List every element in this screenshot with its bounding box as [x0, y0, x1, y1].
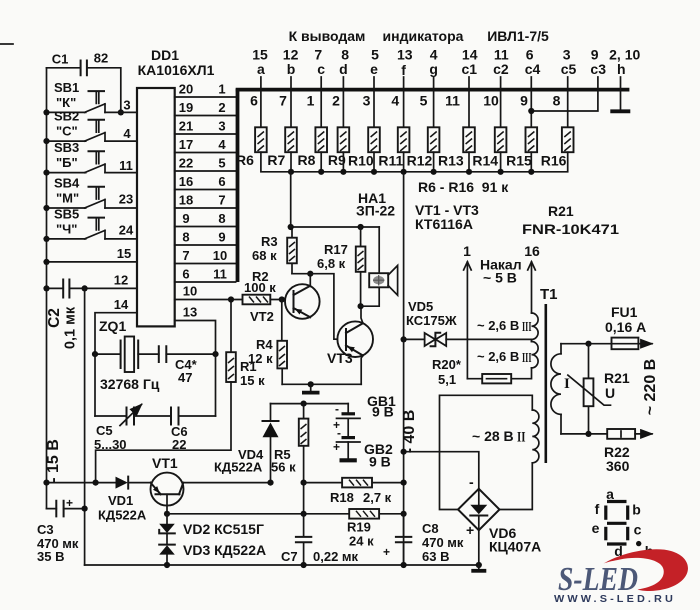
svg-text:3: 3: [123, 98, 130, 113]
transformer T1 core: [544, 304, 547, 463]
wire: VT3 collector to speaker node: [361, 306, 363, 323]
thick vertical bus at table right: [236, 89, 240, 283]
svg-text:+: +: [383, 545, 390, 559]
capacitor C4* 47: [159, 346, 216, 385]
resistor R4 12 к: [248, 300, 287, 385]
svg-text:WWW.S-LED.RU: WWW.S-LED.RU: [554, 593, 676, 605]
svg-text:U: U: [605, 385, 615, 401]
svg-text:21: 21: [179, 119, 193, 134]
node: VT2 base / R4: [279, 296, 285, 302]
svg-text:360: 360: [606, 458, 630, 474]
wire: rail to R18: [304, 482, 404, 484]
svg-text:"Б": "Б": [56, 155, 78, 170]
svg-text:10: 10: [213, 248, 227, 263]
svg-text:КЦ407А: КЦ407А: [489, 539, 541, 555]
svg-text:+: +: [66, 496, 73, 510]
svg-text:18: 18: [179, 193, 193, 208]
svg-text:23: 23: [119, 192, 133, 207]
svg-text:12 к: 12 к: [248, 351, 273, 366]
svg-text:VD2 КС515Г: VD2 КС515Г: [183, 521, 264, 537]
svg-text:35 В: 35 В: [37, 549, 64, 564]
capacitor C3 470 мк 35 В: [37, 496, 85, 564]
svg-text:VD1: VD1: [108, 493, 133, 508]
node: pin15 on bus: [43, 259, 49, 265]
svg-text:+: +: [466, 522, 474, 538]
svg-text:R8: R8: [298, 152, 316, 168]
pushbutton SB4 "М": [47, 176, 138, 209]
svg-text:FU1: FU1: [611, 304, 638, 320]
wire: pin 13 row to crystal right node: [175, 321, 216, 355]
svg-text:h: h: [617, 61, 626, 77]
svg-text:8: 8: [182, 230, 189, 245]
svg-text:16: 16: [524, 243, 540, 259]
resistor R17 6,8 к: [317, 227, 365, 306]
svg-text:c5: c5: [561, 61, 577, 77]
svg-text:-: -: [335, 402, 339, 416]
svg-text:13: 13: [397, 47, 413, 63]
node: R17/speaker top: [358, 224, 364, 230]
svg-text:56 к: 56 к: [271, 460, 296, 475]
svg-text:68 к: 68 к: [252, 248, 277, 263]
resistor R3 68 к: [252, 227, 297, 274]
node: SB1 on bus: [43, 109, 49, 115]
svg-text:R11: R11: [378, 153, 403, 169]
node: pin12 on bus: [43, 285, 49, 291]
wire: VT2 collector up to node: [309, 274, 311, 286]
pushbutton SB1 "К": [47, 80, 138, 113]
filament arrow 16: [531, 262, 533, 313]
chip-side wire numbers below bus: [250, 93, 561, 109]
svg-text:32768 Гц: 32768 Гц: [100, 376, 160, 392]
node: C7 top: [301, 511, 307, 517]
wire: pin 14 to crystal left node: [95, 313, 137, 354]
display segment letters row: [257, 61, 626, 78]
ground symbol (VT2/VT3 emitters): [310, 384, 312, 391]
resistor R8: [315, 127, 327, 152]
resistor R5 56 к: [271, 404, 308, 514]
pushbutton SB2 "С": [47, 109, 138, 142]
winding II ~28 В: [472, 410, 539, 463]
svg-text:0,22 мк: 0,22 мк: [313, 549, 359, 564]
capacitor C6 22: [171, 408, 216, 453]
wire: resistor common bottom line: [261, 152, 568, 172]
wire: pin 15 to bus: [47, 261, 138, 263]
svg-text:17: 17: [179, 137, 193, 152]
svg-text:16: 16: [179, 174, 193, 189]
svg-text:SB5: SB5: [54, 206, 79, 221]
node: R5 top: [301, 401, 307, 407]
node: SB2 on bus: [43, 138, 49, 144]
svg-text:b: b: [287, 61, 296, 77]
node: SB5 on bus: [43, 236, 49, 242]
svg-text:2: 2: [218, 100, 225, 115]
transistor VT3: [327, 321, 373, 366]
crystal ZQ1 32768 Гц: [95, 318, 160, 392]
node: R22/R21 bottom: [585, 431, 591, 437]
capacitor C7 0,22 мк: [281, 514, 359, 565]
svg-text:3: 3: [363, 93, 371, 109]
svg-text:e: e: [370, 61, 378, 77]
S-LED logo: [554, 549, 688, 605]
svg-text:Т1: Т1: [540, 286, 558, 303]
svg-text:0,16 А: 0,16 А: [605, 319, 646, 335]
node: R1 loop on rail: [93, 480, 99, 486]
svg-text:R13: R13: [438, 153, 464, 169]
wire: rail from pin12 wire down to bottom bus: [84, 288, 86, 565]
wire: HA1 top node row: [291, 226, 380, 228]
svg-text:С1: С1: [52, 52, 69, 67]
capacitor C1: [47, 51, 121, 113]
node: R19 on -40V bus: [401, 511, 407, 517]
resistor R19 24 к: [347, 509, 379, 549]
node: c3/c4 tie: [528, 108, 534, 114]
node: -40V rail bridge tap: [401, 449, 407, 455]
resistor R13: [463, 127, 475, 152]
ground (bottom bus): [478, 565, 480, 570]
svg-text:7: 7: [279, 93, 287, 109]
resistor R10: [368, 127, 380, 152]
svg-text:КС175Ж: КС175Ж: [406, 313, 457, 328]
svg-text:КД522А: КД522А: [98, 508, 147, 523]
svg-text:КД522А: КД522А: [214, 460, 263, 475]
svg-text:R17: R17: [324, 242, 348, 257]
resistor R6: [255, 127, 267, 152]
column wires bus to resistors: [261, 91, 568, 127]
svg-text:11: 11: [445, 93, 460, 109]
pin table left column numbers: [179, 82, 193, 282]
svg-text:II: II: [517, 430, 526, 446]
svg-text:R18: R18: [330, 490, 354, 505]
svg-text:b: b: [632, 502, 641, 518]
node: C3 on x84.6 rail: [82, 506, 88, 512]
svg-text:9: 9: [520, 93, 528, 109]
pin table right column numbers: [213, 82, 227, 282]
svg-text:R19: R19: [347, 520, 371, 535]
svg-text:R12: R12: [407, 153, 433, 169]
svg-text:КА1016ХЛ1: КА1016ХЛ1: [138, 62, 215, 78]
node: R1/R2 tap on pin10 wire: [228, 296, 234, 302]
svg-text:R4: R4: [256, 337, 273, 352]
varistor R21 U: [568, 344, 630, 434]
wire: h column with end bar: [620, 77, 622, 110]
svg-text:7: 7: [218, 193, 225, 208]
svg-text:63 В: 63 В: [422, 549, 449, 564]
svg-text:VD5: VD5: [408, 299, 433, 314]
node: crystal left: [92, 351, 98, 357]
svg-text:~ 220 В: ~ 220 В: [642, 359, 659, 415]
svg-text:R21: R21: [548, 203, 574, 219]
svg-text:III: III: [522, 320, 532, 335]
svg-text:VT1: VT1: [152, 455, 178, 471]
pin table wires rows (chip to display bus): [175, 97, 236, 282]
svg-text:С8: С8: [422, 521, 439, 536]
svg-text:VT3: VT3: [327, 350, 353, 366]
node: R17 bottom / VT3 collector: [358, 303, 364, 309]
svg-text:ЗП-22: ЗП-22: [356, 203, 395, 219]
diode VD1 КД522А: [98, 477, 147, 523]
svg-text:1: 1: [218, 82, 225, 97]
svg-text:24 к: 24 к: [349, 534, 374, 549]
svg-text:~ 2,6 В: ~ 2,6 В: [477, 318, 519, 333]
resistor R12: [428, 127, 440, 152]
svg-text:DD1: DD1: [151, 47, 179, 63]
winding I primary: [551, 344, 570, 434]
svg-text:5: 5: [218, 156, 225, 171]
svg-text:47: 47: [178, 370, 192, 385]
wire: primary top to FU1: [561, 343, 612, 345]
resistor R11: [398, 127, 410, 152]
resistor R20* 5,1: [432, 357, 532, 387]
svg-text:- 40 В: - 40 В: [401, 410, 418, 454]
trimmer capacitor C5 5...30: [94, 405, 171, 453]
7-segment indicator sketch: [592, 486, 654, 559]
wire: left keyboard bus: [46, 68, 48, 509]
svg-text:R16: R16: [541, 153, 567, 169]
resistor R15: [526, 127, 538, 152]
wire: R11/f column down (-40V rail upper part): [403, 172, 405, 340]
svg-text:f: f: [401, 62, 406, 78]
svg-text:К выводам: К выводам: [289, 28, 366, 44]
svg-text:24: 24: [119, 223, 134, 238]
node: VD4 on rail: [267, 480, 273, 486]
svg-text:8: 8: [553, 93, 561, 109]
svg-text:a: a: [606, 486, 614, 502]
svg-text:c1: c1: [462, 61, 478, 77]
svg-text:8: 8: [218, 211, 225, 226]
resistor bottom leads: [291, 152, 531, 172]
resistor R9: [338, 127, 350, 152]
svg-text:470 мк: 470 мк: [422, 535, 464, 550]
svg-text:-: -: [469, 474, 474, 490]
svg-text:С2: С2: [46, 308, 63, 328]
svg-text:15 к: 15 к: [240, 373, 265, 388]
svg-text:"Ч": "Ч": [56, 221, 77, 236]
node: R3 / VT2 collector / VT3 base coupling: [307, 271, 313, 277]
label: К выводам индикатора ИВЛ1-7/5: [289, 28, 549, 44]
svg-text:R21: R21: [604, 370, 630, 386]
battery GB1 9 В: [333, 393, 396, 432]
svg-text:7: 7: [182, 248, 189, 263]
svg-text:I: I: [564, 376, 570, 392]
svg-text:d: d: [339, 61, 348, 77]
wire: emitter ground bus: [282, 383, 361, 385]
speaker HA1 ЗП-22: [356, 190, 398, 306]
svg-text:6: 6: [182, 267, 189, 282]
battery GB2 9 В: [333, 418, 393, 469]
node: rail on -40V bus: [401, 480, 407, 486]
svg-text:SB1: SB1: [54, 80, 79, 95]
bridge rectifier VD6 КЦ407А: [458, 474, 541, 555]
wire: oscillator loop verticals: [95, 354, 216, 416]
svg-text:SB4: SB4: [54, 176, 80, 191]
fuse FU1 0,16 А: [605, 304, 652, 349]
transistor VT1: [151, 455, 271, 514]
node: rail on left bus: [43, 480, 49, 486]
svg-text:4: 4: [123, 126, 131, 141]
node: VT2 emitter on ground bus: [308, 381, 314, 387]
node: R5 on rail: [301, 480, 307, 486]
diode VD3 КД522А: [159, 533, 266, 565]
node: R7 column to HA1 row: [288, 224, 294, 230]
svg-text:3: 3: [218, 119, 225, 134]
svg-text:-: -: [337, 426, 341, 440]
svg-text:6,8 к: 6,8 к: [317, 256, 346, 271]
node: VD3 bottom: [164, 562, 170, 568]
svg-text:R14: R14: [472, 153, 498, 169]
svg-text:g: g: [429, 61, 438, 77]
resistor R22 360: [604, 429, 652, 474]
winding III-b ~2,6 В: [477, 342, 538, 368]
svg-text:13: 13: [183, 305, 197, 320]
svg-text:6: 6: [218, 174, 225, 189]
wire: VT3 emitter to ground bus: [361, 356, 363, 385]
capacitor C2 (in pin 12 wire): [46, 280, 137, 350]
svg-text:9 В: 9 В: [372, 404, 394, 420]
wire: 28V winding loop box: [440, 395, 533, 509]
svg-text:100 к: 100 к: [244, 280, 276, 295]
pushbutton SB3 "Б": [47, 140, 138, 173]
svg-text:2,7 к: 2,7 к: [363, 490, 392, 505]
resistor R14: [495, 127, 507, 152]
svg-text:ZQ1: ZQ1: [99, 318, 126, 334]
svg-text:9 В: 9 В: [369, 454, 391, 470]
svg-text:a: a: [257, 61, 265, 77]
svg-text:VT2: VT2: [250, 309, 274, 324]
wire: R19 row: [167, 513, 404, 515]
svg-text:9: 9: [218, 230, 225, 245]
node: C7 bottom: [301, 562, 307, 568]
wire: pin 10 row: [175, 299, 243, 301]
node: SB3 on bus: [43, 170, 49, 176]
svg-text:c: c: [317, 61, 325, 77]
svg-text:R15: R15: [506, 153, 532, 169]
svg-text:4: 4: [391, 93, 399, 109]
svg-text:+: +: [333, 440, 340, 454]
wire: -15V / VD1 / VT1 rail: [47, 482, 151, 484]
svg-text:SB3: SB3: [54, 140, 79, 155]
node: SB4 on bus: [43, 205, 49, 211]
svg-text:~ 2,6 В: ~ 2,6 В: [477, 349, 519, 364]
svg-text:10: 10: [183, 284, 197, 299]
svg-text:"М": "М": [56, 191, 79, 206]
svg-text:e: e: [592, 520, 600, 536]
node: C8 bottom: [401, 562, 407, 568]
wire: bridge plus to bottom bus: [478, 530, 480, 565]
svg-text:5: 5: [420, 93, 428, 109]
wire: bottom bus: [85, 564, 479, 566]
node: -40V rail / VD5: [401, 336, 407, 342]
resistor R16: [562, 127, 574, 152]
svg-text:VD3 КД522А: VD3 КД522А: [183, 542, 266, 558]
svg-text:4: 4: [218, 137, 226, 152]
wire: R7 column down to HA1 row: [290, 172, 292, 227]
svg-text:III: III: [522, 351, 532, 366]
svg-text:c3: c3: [590, 61, 606, 77]
svg-text:19: 19: [179, 100, 193, 115]
svg-text:22: 22: [179, 156, 193, 171]
diode VD4 КД522А: [214, 404, 279, 483]
node: FU1/R21 top: [585, 341, 591, 347]
svg-text:6: 6: [250, 93, 258, 109]
svg-text:R7: R7: [267, 152, 285, 168]
capacitor C8 470 мк 63 В: [383, 514, 464, 565]
svg-text:R6 - R16 91 к: R6 - R16 91 к: [418, 179, 509, 195]
node: VT1 base / zener stack / R19 row: [164, 511, 170, 517]
svg-text:R10: R10: [348, 153, 374, 169]
resistor R2 100 к: [243, 269, 286, 324]
pushbutton SB5 "Ч": [47, 206, 138, 239]
svg-text:С7: С7: [281, 549, 298, 564]
svg-text:11: 11: [119, 158, 133, 173]
winding III-a ~2,6 В: [477, 313, 538, 339]
resistor R1 15 к: [96, 300, 265, 483]
wire: bridge minus row from -40V rail: [404, 452, 479, 489]
svg-text:~ 28 В: ~ 28 В: [472, 428, 514, 444]
IC DD1 КА1016ХЛ1 body: [137, 47, 215, 326]
resistor network labels R6..R16: [236, 152, 567, 169]
node: crystal right: [212, 351, 218, 357]
svg-text:c4: c4: [525, 61, 541, 77]
display pin numbers row: [252, 47, 640, 63]
nodes on common line: [288, 169, 294, 175]
wire: primary bottom to R22: [561, 433, 607, 435]
svg-text:0,1 мк: 0,1 мк: [63, 306, 79, 349]
svg-text:SB2: SB2: [54, 109, 79, 124]
thick display bus: [236, 88, 630, 92]
svg-text:"С": "С": [56, 124, 78, 139]
zener VD5 КС175Ж: [406, 299, 457, 346]
svg-text:- 15 В: - 15 В: [45, 439, 62, 483]
svg-text:14: 14: [114, 297, 129, 312]
svg-text:10: 10: [483, 93, 499, 109]
artifact dash top-left: [0, 43, 13, 45]
svg-text:ИВЛ1-7/5: ИВЛ1-7/5: [487, 28, 549, 44]
svg-text:20: 20: [179, 82, 193, 97]
svg-text:индикатора: индикатора: [383, 28, 464, 44]
svg-text:~ 5 В: ~ 5 В: [483, 270, 517, 286]
svg-text:11: 11: [213, 267, 227, 282]
transistor VT2: [285, 284, 320, 319]
svg-text:КТ6116А: КТ6116А: [415, 216, 473, 232]
resistor R18 2,7 к: [330, 478, 392, 505]
svg-text:С3: С3: [37, 522, 54, 537]
zener VD2 КС515Г: [159, 514, 264, 537]
svg-text:1: 1: [307, 93, 315, 109]
wire: upper node row (VD4/R5/GB1): [271, 403, 349, 405]
filament arrow 1: [466, 262, 468, 379]
wire: coupling to VT3 base: [292, 274, 337, 340]
node: tap of x84.6 rail on pin12 wire: [82, 285, 88, 291]
svg-text:С5: С5: [96, 423, 113, 438]
column stubs above bus: [261, 77, 598, 88]
wire: -40V rail middle section: [403, 339, 405, 565]
svg-text:FNR-10K471: FNR-10K471: [522, 221, 619, 237]
wire: c3 tie to c4 column: [531, 91, 598, 111]
svg-text:f: f: [595, 501, 600, 517]
svg-text:5,1: 5,1: [438, 372, 456, 387]
node: bridge output on bus: [476, 562, 482, 568]
svg-text:9: 9: [182, 211, 189, 226]
svg-text:2: 2: [332, 93, 340, 109]
resistor R7: [285, 127, 297, 152]
wire: VD5 row (centre tap): [404, 339, 532, 341]
svg-text:12: 12: [114, 273, 128, 288]
svg-text:82: 82: [94, 51, 108, 66]
node: C1 to pin3 wire junction: [118, 109, 124, 115]
svg-text:c: c: [634, 522, 642, 538]
svg-text:15: 15: [117, 246, 131, 261]
svg-text:R3: R3: [261, 234, 278, 249]
